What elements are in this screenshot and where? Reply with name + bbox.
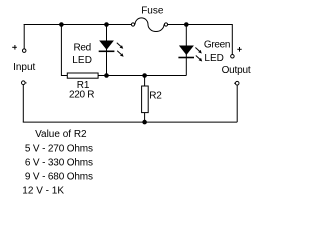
svg-text:Value of R2: Value of R2: [35, 129, 87, 140]
resistor R2: [142, 76, 149, 123]
terminal - input: [22, 81, 26, 85]
wire mid rail: [107, 75, 187, 77]
wire left input drop (+): [23, 24, 25, 49]
svg-text:Red: Red: [74, 43, 91, 54]
svg-text:Green: Green: [204, 39, 230, 50]
node junction mid rail / R2 top: [142, 73, 147, 78]
node junction top rail / green LED branch: [184, 22, 189, 27]
svg-text:LED: LED: [72, 55, 92, 66]
label + (input): [12, 45, 17, 50]
svg-text:Fuse: Fuse: [141, 6, 164, 17]
svg-text:220 R: 220 R: [69, 90, 94, 101]
wire green LED branch vertical: [185, 25, 187, 76]
terminal + output: [231, 55, 235, 59]
wire bottom rail: [23, 121, 237, 123]
wire right output drop (+): [231, 24, 233, 55]
svg-text:5 V - 270 Ohms: 5 V - 270 Ohms: [25, 143, 93, 154]
wire top rail right segment: [168, 24, 233, 26]
svg-text:Output: Output: [222, 65, 251, 76]
green LED light arrow 1: [195, 48, 201, 54]
diode green LED D2: [178, 46, 194, 58]
svg-text:6 V - 330 Ohms: 6 V - 330 Ohms: [25, 157, 93, 168]
wire right bottom rise (-): [236, 85, 238, 122]
wire R1 branch vertical: [60, 25, 62, 77]
diode red LED D1: [99, 41, 115, 52]
wire left bottom drop (-): [22, 85, 24, 122]
svg-text:LED: LED: [204, 53, 223, 64]
fuse F1: [131, 18, 167, 32]
svg-text:Input: Input: [13, 62, 35, 73]
wire red LED branch vertical: [106, 25, 108, 76]
svg-text:9 V - 680 Ohms: 9 V - 680 Ohms: [25, 171, 93, 182]
svg-text:R2: R2: [149, 91, 162, 102]
terminal + input: [22, 49, 26, 53]
red LED light arrow 1: [117, 43, 123, 49]
node junction top rail / R1 branch: [59, 22, 64, 27]
node junction top rail / red LED branch: [104, 22, 109, 27]
resistor R1: [61, 73, 106, 78]
svg-text:12 V - 1K: 12 V - 1K: [22, 185, 64, 194]
label + (output): [237, 47, 241, 52]
node junction R1 / red LED / mid rail: [104, 73, 109, 78]
red LED light arrow 2: [117, 51, 123, 57]
green LED light arrow 2: [196, 56, 202, 62]
node junction R2 bottom / bottom rail: [142, 120, 147, 125]
wire top rail left segment: [24, 24, 132, 26]
terminal - output: [235, 81, 239, 85]
